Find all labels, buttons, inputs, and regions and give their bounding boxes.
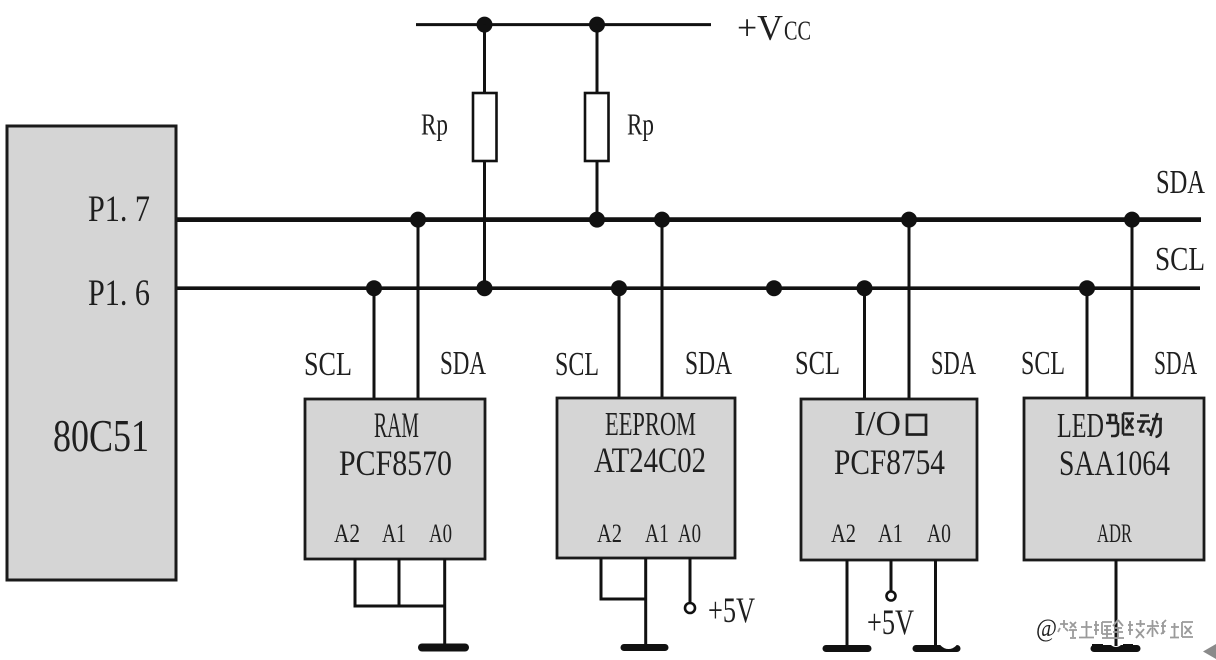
svg-text:SDA: SDA [1156, 164, 1205, 201]
svg-text:A1: A1 [645, 519, 669, 548]
IC U3 EEPROM AT24C02 [557, 398, 735, 558]
wire RAM SDA [417, 220, 420, 399]
IC U4 I/O PCF8754 [801, 399, 977, 560]
svg-text:SCL: SCL [1155, 241, 1205, 278]
svg-text:P1. 7: P1. 7 [88, 189, 150, 230]
char jue [1094, 621, 1112, 638]
svg-text:A1: A1 [878, 519, 903, 548]
svg-text:A0: A0 [678, 519, 701, 548]
char shu [1147, 620, 1159, 637]
svg-text:CC: CC [784, 16, 811, 46]
svg-text:A2: A2 [334, 519, 360, 548]
wire EEPROM SDA [661, 220, 664, 398]
wire RAM A2 [354, 559, 357, 608]
svg-text:SCL: SCL [1021, 345, 1065, 382]
watermark notch (LED) [1109, 633, 1123, 647]
svg-text:AT24C02: AT24C02 [594, 440, 706, 480]
svg-text:Rp: Rp [421, 107, 448, 142]
char she [1161, 620, 1179, 638]
svg-text:PCF8570: PCF8570 [339, 443, 452, 483]
junction dot SCL isolated [766, 280, 782, 296]
junction dot SCL/EEPROM [611, 280, 627, 296]
junction dot SDA/Rp2 [589, 212, 605, 228]
watermark notch (IO A0) [938, 628, 959, 649]
svg-text:+5V: +5V [867, 602, 914, 642]
svg-text:EEPROM: EEPROM [605, 406, 696, 443]
char ji [1128, 620, 1145, 638]
label dong (CJK) [1137, 413, 1162, 437]
wire EEPROM A1 [644, 558, 647, 647]
svg-text:A2: A2 [831, 519, 856, 548]
char qu [1182, 622, 1193, 637]
wire RAM A2-A0 horizontal [354, 605, 447, 608]
ground (IO A0) [916, 645, 957, 652]
char xi [1058, 620, 1077, 638]
svg-text:SCL: SCL [304, 346, 352, 383]
svg-text:PCF8754: PCF8754 [834, 442, 945, 482]
IC U2 RAM PCF8570 [305, 399, 485, 559]
page-edge arrow [1203, 644, 1216, 659]
wire LED ADR lower stub [1115, 632, 1118, 646]
resistor R2 (Rp right) [585, 25, 609, 221]
junction dot SCL/Rp1 [477, 280, 493, 296]
IC U1 80C51 [7, 126, 176, 580]
wire IO A1 [890, 560, 893, 592]
wire IO SDA [908, 220, 911, 399]
junction dot SDA/RAM [410, 212, 426, 228]
wire EEPROM A2-A1 horizontal [600, 598, 648, 601]
svg-text:LED: LED [1057, 406, 1104, 445]
label qu (CJK) [1106, 414, 1134, 437]
junction dot SDA/IO [901, 212, 917, 228]
svg-text:ADR: ADR [1097, 519, 1132, 548]
wire IO A0 [934, 560, 937, 648]
svg-text:@: @ [1036, 615, 1057, 642]
svg-text:A1: A1 [382, 519, 406, 548]
ground (LED) [1094, 645, 1137, 652]
wire RAM A1 [398, 559, 401, 608]
watermark CJK chars [1058, 620, 1193, 638]
wire RAM SCL [373, 288, 376, 399]
ground (RAM) [422, 644, 465, 652]
wire EEPROM SCL [618, 288, 621, 398]
wire EEPROM A0 [689, 558, 692, 603]
wire SCL bus [175, 286, 1201, 290]
junction dot SCL/LED [1079, 280, 1095, 296]
wire EEPROM A2 [600, 558, 603, 601]
svg-text:A0: A0 [927, 519, 951, 548]
svg-text:SDA: SDA [931, 345, 976, 382]
char tu [1079, 621, 1094, 638]
wire LED ADR [1115, 560, 1118, 640]
junction dot VCC-left [477, 17, 493, 33]
node +VCC label [737, 8, 811, 48]
svg-text:+5V: +5V [708, 590, 755, 630]
svg-text:SDA: SDA [685, 345, 732, 382]
junction dot SCL/RAM [366, 280, 382, 296]
svg-text:A0: A0 [429, 519, 452, 548]
wire SDA bus [175, 217, 1202, 222]
wire LED SDA [1131, 220, 1134, 398]
ground bumps (LED) [1092, 644, 1103, 649]
wire LED SCL [1086, 288, 1089, 398]
junction dot SDA/EEPROM [654, 212, 670, 228]
svg-text:80C51: 80C51 [53, 411, 149, 461]
junction dot VCC-right [589, 17, 605, 33]
wire RAM A0 [443, 559, 446, 647]
svg-text:SAA1064: SAA1064 [1059, 443, 1170, 483]
svg-text:SCL: SCL [795, 345, 840, 382]
svg-text:+V: +V [737, 8, 783, 48]
wire IO A2 [846, 560, 849, 647]
terminal +5V (EEPROM) [685, 603, 695, 613]
label kou (CJK box) [907, 415, 926, 435]
svg-text:Rp: Rp [627, 107, 654, 142]
char jin [1112, 620, 1124, 638]
resistor R1 (Rp left) [473, 25, 497, 290]
svg-text:A2: A2 [597, 519, 622, 548]
IC U5 LED driver SAA1064 [1024, 398, 1204, 560]
junction dot SDA/LED [1124, 212, 1140, 228]
svg-text:RAM: RAM [374, 405, 419, 445]
svg-text:SDA: SDA [440, 345, 486, 382]
svg-text:P1. 6: P1. 6 [88, 273, 150, 314]
svg-text:I/O: I/O [854, 404, 901, 443]
svg-text:SCL: SCL [555, 346, 599, 383]
terminal +5V (IO) [887, 592, 896, 601]
junction dot SCL/IO [857, 280, 873, 296]
ground (IO A2) [826, 645, 868, 652]
ground (EEPROM) [624, 644, 665, 651]
wire IO SCL [863, 288, 866, 399]
wire VCC rail [416, 23, 711, 26]
svg-text:SDA: SDA [1154, 345, 1197, 382]
